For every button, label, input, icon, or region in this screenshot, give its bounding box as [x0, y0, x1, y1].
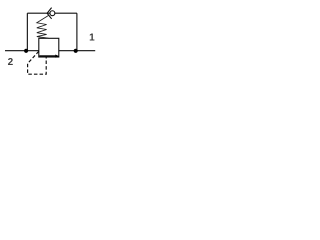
valve body square: [39, 38, 59, 57]
spring on top of valve body: [37, 16, 49, 39]
junction dot right (node on outlet line): [74, 49, 78, 53]
wire: bypass left vertical: [26, 13, 28, 51]
junction dot left (node on inlet line): [24, 49, 28, 53]
wire: outlet line valve body to port 1: [59, 50, 95, 52]
flow path arrow inside valve body: [39, 55, 56, 57]
svg-text:1: 1: [89, 32, 95, 43]
wire: bypass top horizontal: [27, 12, 77, 14]
check valve V1 seat: [47, 8, 52, 19]
wire: inlet line port 2 to valve body: [5, 50, 39, 52]
wire: bypass right vertical: [76, 13, 78, 51]
pilot line (dashed) from inlet to bottom of valve: [28, 51, 47, 74]
check valve V1 ball: [50, 11, 55, 16]
svg-text:2: 2: [8, 57, 14, 68]
